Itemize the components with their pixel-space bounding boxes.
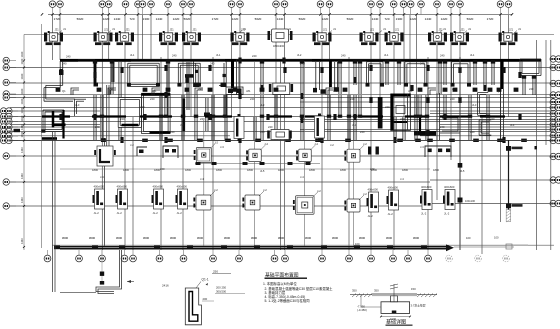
svg-text:JZ1: JZ1 [170,29,175,32]
U-unit left mid [94,146,116,166]
svg-text:J1: J1 [468,27,471,31]
svg-text:JZ1: JZ1 [323,29,328,32]
svg-text:240: 240 [360,130,365,134]
misc verticals left-center [94,60,96,85]
svg-text:JL4: JL4 [352,123,357,127]
svg-text:240: 240 [300,117,305,121]
left grid bubble pairs [0,108,6,114]
svg-text:400x600: 400x600 [368,188,379,192]
svg-text:5620: 5620 [77,17,84,21]
svg-text:200: 200 [203,297,208,301]
svg-text:JL3: JL3 [260,103,265,107]
svg-text:240: 240 [452,87,457,91]
svg-text:1800: 1800 [92,168,98,172]
svg-text:240: 240 [109,87,114,91]
svg-text:2416: 2416 [162,284,169,288]
top dimension line 1 [48,13,512,15]
svg-text:1720: 1720 [212,17,219,21]
svg-text:1800x900: 1800x900 [273,45,285,48]
L-shaped wall detail Q1-1 [185,288,201,325]
svg-text:240: 240 [341,54,346,58]
svg-text:J-2: J-2 [214,188,218,192]
svg-text:1440: 1440 [277,17,284,21]
svg-text:3600: 3600 [62,236,69,240]
svg-text:400x600: 400x600 [388,186,399,190]
svg-text:3600: 3600 [305,236,312,240]
svg-text:240: 240 [450,97,455,101]
svg-text:300/200: 300/200 [216,290,227,294]
svg-text:1440: 1440 [20,238,24,244]
svg-text:240: 240 [120,117,125,121]
svg-text:1440: 1440 [372,17,379,21]
svg-text:JZ1: JZ1 [152,89,157,93]
right grid bubbles [550,56,556,62]
pier pairs band1 y62-85 [93,62,95,85]
pier pairs band3 y117-140 [93,117,95,140]
svg-text:250: 250 [213,270,218,274]
svg-text:J-2: J-2 [363,142,367,146]
svg-text:J1: J1 [443,27,446,31]
mid center unit cx280 cy134.5 [267,130,292,140]
svg-text:基础平面布置图: 基础平面布置图 [265,272,299,279]
svg-text:3600: 3600 [224,236,231,240]
svg-text:1440: 1440 [20,147,24,153]
svg-text:240: 240 [400,117,405,121]
svg-text:240: 240 [200,117,205,121]
dark vbar x380 [378,97,383,129]
svg-text:240: 240 [440,54,445,58]
svg-text:J-2: J-2 [130,143,134,147]
svg-text:JZ1: JZ1 [395,29,400,32]
svg-text:100x100: 100x100 [465,199,476,203]
blobs on y139-142 row [142,139,148,142]
svg-text:240: 240 [150,97,155,101]
svg-text:1440: 1440 [20,124,24,130]
svg-text:100: 100 [355,242,360,246]
svg-text:JL3: JL3 [75,103,80,107]
svg-text:JZ1: JZ1 [408,89,413,93]
mid row units [234,114,244,141]
svg-text:1220: 1220 [173,17,180,21]
dark hbar [414,131,436,136]
svg-text:JZ1: JZ1 [246,89,251,93]
blob row y90 [56,88,61,92]
svg-text:1440: 1440 [20,73,24,79]
svg-text:J1: J1 [518,27,521,31]
grey hatch bar below [506,210,511,222]
left grid bubbles [3,57,9,63]
bottom-left stepped boundary [52,132,54,293]
svg-text:400x600: 400x600 [94,185,105,189]
svg-text:5620: 5620 [467,17,474,21]
svg-text:400x600: 400x600 [421,185,432,189]
center unit cx281 cy88 [269,83,293,94]
svg-text:JZ1: JZ1 [241,29,246,32]
left wall and steps [59,61,61,88]
pier pairs band2 y95-116 [93,95,95,116]
svg-text:240: 240 [490,117,495,121]
right small C structures [478,92,489,94]
svg-text:J-4: J-4 [200,177,204,181]
mid wall band dark overlays [42,115,70,117]
svg-text:1440: 1440 [20,51,24,57]
svg-text:3600: 3600 [386,236,393,240]
svg-text:JZ1: JZ1 [55,29,60,32]
L-wall [74,98,86,100]
svg-text:3600: 3600 [197,236,204,240]
svg-text:720: 720 [384,17,389,21]
shaft dark rect [391,94,411,130]
svg-text:240: 240 [300,62,305,66]
top grid bubbles [49,1,56,8]
svg-text:240: 240 [170,130,175,134]
svg-text:1800: 1800 [340,168,346,172]
svg-text:3600: 3600 [170,236,177,240]
svg-text:1220: 1220 [441,17,448,21]
svg-text:(-0.450): (-0.450) [357,308,367,312]
svg-text:1220: 1220 [322,17,329,21]
svg-text:J1: J1 [383,27,386,31]
right dark line x508 with nodes [508,140,510,210]
svg-text:240: 240 [210,62,215,66]
svg-text:720: 720 [129,17,134,21]
svg-text:1220: 1220 [103,17,110,21]
svg-text:J-2: J-2 [317,189,321,193]
svg-text:JZ1: JZ1 [126,29,131,32]
svg-text:240: 240 [140,105,145,109]
right wall column x502 [500,61,503,89]
svg-text:3:7灰土垫层: 3:7灰土垫层 [411,304,426,308]
corner brackets y86-95 [71,88,79,95]
small wall column blobs [59,69,62,75]
svg-text:240: 240 [66,55,71,59]
svg-text:5620: 5620 [184,17,191,21]
svg-text:240: 240 [333,89,338,93]
bottom dashed bubbles [446,255,453,262]
svg-text:1800: 1800 [309,168,315,172]
svg-text:J-3: J-3 [220,145,224,149]
pier pair x120 upper [118,62,120,97]
wall rect B [178,62,200,64]
bottom wall double line [52,244,554,246]
svg-text:J-2: J-2 [330,143,334,147]
svg-text:1440: 1440 [20,58,24,64]
dark core verticals center [231,59,234,88]
svg-text:240: 240 [198,87,203,91]
svg-text:1800: 1800 [216,168,222,172]
svg-text:1720: 1720 [487,17,494,21]
svg-text:1720: 1720 [54,17,61,21]
svg-text:JL1: JL1 [470,53,475,57]
dark bars inside box/stairwell [122,124,139,126]
svg-text:1440: 1440 [20,115,24,121]
svg-text:J1: J1 [333,27,336,31]
svg-text:100: 100 [494,236,499,240]
svg-text:240: 240 [62,62,67,66]
svg-text:150: 150 [411,287,416,291]
svg-text:JZ1: JZ1 [104,29,109,32]
right tall gridline with nodes [459,57,461,250]
dark cluster left of center [226,87,243,95]
svg-text:1. 本图标高以M为单位: 1. 本图标高以M为单位 [263,281,297,286]
svg-text:J-2: J-2 [363,192,367,196]
svg-text:JL4: JL4 [510,123,515,127]
bottom arrow [446,244,454,251]
lower column detail row [93,185,105,216]
svg-text:J-3: J-3 [420,145,424,149]
svg-text:JL-2: JL-2 [153,211,159,215]
bracket structure x425-455 [425,146,451,157]
dark double line x102-104 lower [103,138,105,246]
svg-text:Q1: Q1 [497,89,501,93]
svg-text:1440: 1440 [156,17,163,21]
pier top/bottom blobs [93,60,97,63]
svg-text:240: 240 [470,130,475,134]
svg-text:1800: 1800 [433,168,439,172]
svg-text:J-2: J-2 [214,141,218,145]
svg-text:1800: 1800 [247,168,253,172]
svg-text:3600: 3600 [116,236,123,240]
svg-text:JL-2: JL-2 [388,212,394,216]
svg-text:1800: 1800 [123,168,129,172]
svg-text:J-2: J-2 [314,142,318,146]
svg-text:JL5: JL5 [260,169,265,173]
svg-text:J-4: J-4 [400,177,404,181]
svg-text:JL1: JL1 [216,53,221,57]
svg-text:JZ1: JZ1 [439,29,444,32]
svg-text:JL-2: JL-2 [444,212,450,216]
svg-text:240: 240 [260,130,265,134]
svg-text:JL5: JL5 [460,169,465,173]
svg-text:240: 240 [385,105,390,109]
svg-text:400x600: 400x600 [153,185,164,189]
C-shape feet blobs [366,83,370,87]
svg-text:3600: 3600 [332,236,339,240]
svg-text:JL-2: JL-2 [368,214,374,218]
vertical grid lines [52,15,54,60]
svg-text:JZ1: JZ1 [509,29,514,32]
svg-text:5620: 5620 [255,17,262,21]
svg-text:3600: 3600 [359,236,366,240]
svg-text:1440: 1440 [425,17,432,21]
svg-text:J-4: J-4 [300,175,304,179]
bottom beam marks [54,246,60,250]
top column footings row [44,29,63,46]
svg-text:240: 240 [350,97,355,101]
svg-text:Q1: Q1 [62,89,66,93]
svg-text:240: 240 [440,125,445,129]
wall rect A [128,62,159,64]
shaft inner details [392,121,407,123]
svg-text:J-4: J-4 [100,175,104,179]
svg-text:1440: 1440 [20,107,24,113]
svg-text:JL-2: JL-2 [94,211,100,215]
svg-text:240: 240 [420,62,425,66]
svg-text:1440: 1440 [20,98,24,104]
svg-text:3600: 3600 [251,236,258,240]
svg-text:1300: 1300 [396,17,403,21]
svg-text:基础详图: 基础详图 [386,319,406,326]
svg-text:1800: 1800 [402,168,408,172]
pad footings mid row [194,141,219,163]
left small room box [43,109,64,111]
svg-text:JL1: JL1 [130,53,135,57]
svg-text:1440: 1440 [114,17,121,21]
svg-text:JL1: JL1 [384,53,389,57]
svg-text:240: 240 [370,167,375,171]
pad center lines + y169 line [254,62,256,246]
svg-text:5620: 5620 [347,17,354,21]
svg-text:240: 240 [268,125,273,129]
bottom grid bubbles [44,255,51,262]
svg-text:J1: J1 [63,27,66,31]
svg-text:240: 240 [160,167,165,171]
svg-text:1440: 1440 [20,197,24,203]
svg-text:JL-2: JL-2 [117,211,123,215]
svg-text:J-2: J-2 [264,142,268,146]
special top column unit cx280 [268,29,293,48]
svg-text:5620: 5620 [299,17,306,21]
svg-text:1220: 1220 [232,17,239,21]
top dimension line 2 [24,34,554,36]
svg-text:3600: 3600 [413,236,420,240]
svg-text:5. 1-1处-2等截面C30与柱相同: 5. 1-1处-2等截面C30与柱相同 [265,298,311,303]
svg-text:1440: 1440 [20,131,24,137]
box-bottom piers right end [522,76,524,95]
svg-text:400x600: 400x600 [117,185,128,189]
leader arrow near step [127,281,134,283]
svg-text:3600: 3600 [89,236,96,240]
svg-text:350: 350 [352,288,357,292]
svg-text:J1: J1 [112,27,115,31]
svg-text:240: 240 [252,54,257,58]
left vertical dimension string [23,35,25,251]
right end box [520,58,541,60]
svg-text:240: 240 [529,87,534,91]
svg-text:1440: 1440 [20,88,24,94]
svg-text:240: 240 [250,97,255,101]
lower pad footings [193,188,218,210]
svg-text:100: 100 [466,236,471,240]
svg-text:1300: 1300 [143,17,150,21]
small mid structures [137,147,147,156]
svg-text:JL-2: JL-2 [177,211,183,215]
svg-text:JL3: JL3 [472,103,477,107]
svg-text:3600: 3600 [143,236,150,240]
svg-text:400x600: 400x600 [444,185,455,189]
stairwell rect [141,92,170,94]
svg-text:240: 240 [172,54,177,58]
svg-text:JL4: JL4 [180,123,185,127]
svg-text:JL-2: JL-2 [421,212,427,216]
svg-text:1800: 1800 [185,168,191,172]
svg-text:400x600: 400x600 [177,185,188,189]
svg-text:1440: 1440 [20,173,24,179]
svg-text:1800: 1800 [278,168,284,172]
svg-text:3600: 3600 [278,236,285,240]
footing section detail [393,284,395,302]
box rect [118,96,141,98]
svg-text:JZ1: JZ1 [370,29,375,32]
dark cluster right of center [313,88,317,93]
horizontal grid lines [10,67,554,69]
svg-text:JZ1: JZ1 [461,29,466,32]
grey line x102 with nodes [101,250,103,284]
svg-text:240: 240 [95,125,100,129]
svg-text:JZ1: JZ1 [193,29,198,32]
svg-text:Q1-1: Q1-1 [202,278,209,282]
svg-text:1220: 1220 [410,17,417,21]
svg-text:350: 350 [374,288,379,292]
mid dim line y163.5 [195,163,320,165]
mid-right structures [436,93,438,140]
main wall top band y59-61 [60,58,541,60]
right C-shapes [367,61,384,63]
svg-text:JL2: JL2 [297,53,302,57]
svg-text:J-2: J-2 [263,188,267,192]
